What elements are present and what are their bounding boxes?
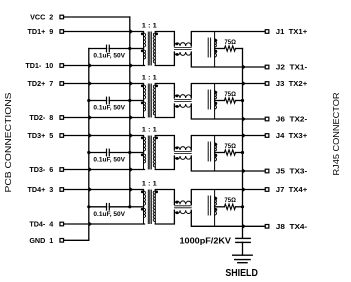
wire hop on termination bus xyxy=(242,224,246,229)
svg-text:TD4+ 3: TD4+ 3 xyxy=(28,185,54,194)
wire hop on GND bus xyxy=(89,63,93,68)
svg-text:RJ45 CONNECTOR: RJ45 CONNECTOR xyxy=(332,92,341,175)
wire TD4+&#160;&#160;3 to transformer T4 primary top xyxy=(65,189,144,191)
svg-text:75Ω: 75Ω xyxy=(224,40,236,46)
transformer T1 isolation 1:1 xyxy=(141,32,158,66)
wire hop on GND bus xyxy=(89,167,93,172)
wire T2 secondary top to choke L2 xyxy=(155,84,174,99)
wire center tap stub T3 xyxy=(130,152,144,154)
svg-text:0.1uF, 50V: 0.1uF, 50V xyxy=(93,53,125,60)
wire TD1+&#160;&#160;9 to transformer T1 primary top xyxy=(65,31,144,33)
svg-text:SHIELD: SHIELD xyxy=(225,268,258,279)
svg-text:J4 TX3+: J4 TX3+ xyxy=(276,131,307,140)
node GND bus xyxy=(88,49,90,241)
wire hop on GND bus xyxy=(89,115,93,120)
transformer T4 isolation 1:1 xyxy=(141,190,158,225)
capacitor C2 0.1uF 50V (decoupling) xyxy=(89,100,107,102)
wire hop on VCC bus xyxy=(130,29,134,34)
svg-text:J5 TX3-: J5 TX3- xyxy=(276,167,308,176)
svg-text:J3 TX2+: J3 TX2+ xyxy=(276,79,307,88)
svg-text:0.1uF, 50V: 0.1uF, 50V xyxy=(93,105,125,112)
capacitor C3 0.1uF 50V (decoupling) xyxy=(89,152,107,154)
pin J7&#160;&#160;TX4+ xyxy=(265,188,269,192)
autotransformer choke L3b xyxy=(208,136,217,172)
wire TD1-&#160;&#160;10 to transformer T1 primary bottom xyxy=(65,65,145,67)
svg-text:1000pF/2KV: 1000pF/2KV xyxy=(180,237,232,246)
junction VCC bus / center tap T4 xyxy=(128,205,131,208)
junction GND bus / capacitor C4 xyxy=(87,205,90,208)
wire GND pin to ground bus xyxy=(65,239,89,241)
junction termination bus / resistor R2 xyxy=(241,99,244,102)
wire TD2-&#160;&#160;8 to transformer T2 primary bottom xyxy=(65,117,145,119)
common-mode choke L2 xyxy=(174,95,191,108)
svg-text:75Ω: 75Ω xyxy=(224,198,236,204)
transformer T3 isolation 1:1 xyxy=(141,136,158,170)
pin J6&#160;&#160;TX2- xyxy=(265,117,269,121)
svg-text:TD3+ 5: TD3+ 5 xyxy=(28,131,54,140)
wire TD3+&#160;&#160;5 to transformer T3 primary top xyxy=(65,135,144,137)
node termination bus to shield capacitor xyxy=(242,49,244,239)
svg-text:TD1+ 9: TD1+ 9 xyxy=(28,27,54,36)
junction termination bus / resistor R3 xyxy=(241,151,244,154)
svg-text:TD2+ 7: TD2+ 7 xyxy=(28,79,54,88)
wire T4 secondary top to choke L4 xyxy=(155,190,174,205)
common-mode choke L4 xyxy=(174,201,191,214)
svg-text:TD2- 8: TD2- 8 xyxy=(29,113,53,122)
wire hop on VCC bus xyxy=(130,187,134,192)
wire hop on GND bus xyxy=(89,221,93,226)
resistor R3 75 Ohm (termination) xyxy=(215,150,243,155)
common-mode choke L3 xyxy=(174,147,191,160)
node VCC bus (center taps) xyxy=(129,17,131,207)
svg-text:75Ω: 75Ω xyxy=(224,144,236,150)
svg-text:VCC 2: VCC 2 xyxy=(30,13,53,22)
autotransformer choke L2b xyxy=(208,84,217,120)
wire choke L1 to J2&#160;&#160;TX1- (bottom rail) xyxy=(191,52,264,67)
capacitor C1 0.1uF 50V (decoupling) xyxy=(89,48,107,50)
wire T2 secondary bottom to choke L2 xyxy=(155,104,174,118)
wire hop on termination bus xyxy=(242,116,246,121)
pin J3&#160;&#160;TX2+ xyxy=(265,82,269,86)
svg-text:75Ω: 75Ω xyxy=(224,92,236,98)
wire TD3-&#160;&#160;6 to transformer T3 primary bottom xyxy=(65,169,145,171)
pin J4&#160;&#160;TX3+ xyxy=(265,134,269,138)
wire hop on termination bus xyxy=(242,64,246,69)
wire hop on VCC bus xyxy=(130,115,134,120)
autotransformer choke L4b xyxy=(208,190,217,227)
svg-text:J2 TX1-: J2 TX1- xyxy=(276,63,308,72)
junction VCC bus / center tap T2 xyxy=(128,99,131,102)
wire hop on termination bus xyxy=(242,81,246,86)
junction termination bus / resistor R4 xyxy=(241,205,244,208)
svg-text:0.1uF, 50V: 0.1uF, 50V xyxy=(93,157,125,164)
wire hop on termination bus xyxy=(242,187,246,192)
wire choke L1 to J1&#160;&#160;TX1+ (top rail) xyxy=(191,32,264,47)
wire hop on VCC bus xyxy=(130,81,134,86)
wire hop on termination bus xyxy=(242,168,246,173)
ground (shield) xyxy=(233,255,253,263)
svg-text:1 : 1: 1 : 1 xyxy=(142,126,157,133)
resistor R4 75 Ohm (termination) xyxy=(215,204,243,209)
wire T1 secondary top to choke L1 xyxy=(155,32,174,47)
wire center tap stub T1 xyxy=(130,48,144,50)
svg-text:TD3- 6: TD3- 6 xyxy=(29,165,53,174)
resistor R1 75 Ohm (termination) xyxy=(215,46,243,51)
svg-text:TD4- 4: TD4- 4 xyxy=(29,220,53,229)
wire hop on VCC bus xyxy=(130,63,134,68)
wire hop on VCC bus xyxy=(130,167,134,172)
svg-text:PCB CONNECTIONS: PCB CONNECTIONS xyxy=(3,92,13,192)
junction GND bus / capacitor C3 xyxy=(87,151,90,154)
transformer T2 isolation 1:1 xyxy=(141,84,158,118)
wire T1 secondary bottom to choke L1 xyxy=(155,52,174,66)
junction VCC bus / center tap T3 xyxy=(128,151,131,154)
wire center tap stub T2 xyxy=(130,100,144,102)
wire choke L3 to J5&#160;&#160;TX3- (bottom rail) xyxy=(191,156,264,171)
wire TD2+&#160;&#160;7 to transformer T2 primary top xyxy=(65,83,144,85)
wire hop on GND bus xyxy=(89,133,93,138)
wire VCC to center-tap bus xyxy=(65,16,130,18)
wire hop on GND bus xyxy=(89,187,93,192)
wire hop on VCC bus xyxy=(130,133,134,138)
wire choke L3 to J4&#160;&#160;TX3+ (top rail) xyxy=(191,136,264,151)
pin J1&#160;&#160;TX1+ xyxy=(265,30,269,34)
pin J8&#160;&#160;TX4- xyxy=(265,225,269,229)
svg-text:1 : 1: 1 : 1 xyxy=(142,180,157,187)
junction GND bus / capacitor C2 xyxy=(87,99,90,102)
pin J2&#160;&#160;TX1- xyxy=(265,65,269,69)
svg-text:0.1uF, 50V: 0.1uF, 50V xyxy=(93,211,125,218)
wire T4 secondary bottom to choke L4 xyxy=(155,210,174,224)
wire TD4-&#160;&#160;4 to transformer T4 primary bottom xyxy=(65,223,145,225)
pin J5&#160;&#160;TX3- xyxy=(265,169,269,173)
svg-text:TD1- 10: TD1- 10 xyxy=(25,61,53,70)
wire center tap stub T4 xyxy=(130,206,144,208)
capacitor C4 0.1uF 50V (decoupling) xyxy=(89,206,107,208)
wire T3 secondary top to choke L3 xyxy=(155,136,174,151)
common-mode choke L1 xyxy=(174,43,191,56)
capacitor C5 1000pF/2KV shield xyxy=(236,238,250,255)
junction VCC bus / center tap T1 xyxy=(128,47,131,50)
autotransformer choke L1b xyxy=(208,32,217,68)
svg-text:J7 TX4+: J7 TX4+ xyxy=(276,185,307,194)
wire hop on GND bus xyxy=(89,81,93,86)
svg-text:J1 TX1+: J1 TX1+ xyxy=(276,27,307,36)
wire hop on termination bus xyxy=(242,133,246,138)
svg-text:GND 1: GND 1 xyxy=(29,236,53,245)
svg-text:J8 TX4-: J8 TX4- xyxy=(276,222,308,231)
wire T3 secondary bottom to choke L3 xyxy=(155,156,174,170)
wire choke L4 to J8&#160;&#160;TX4- (bottom rail) xyxy=(191,210,264,226)
resistor R2 75 Ohm (termination) xyxy=(215,98,243,103)
svg-text:1 : 1: 1 : 1 xyxy=(142,74,157,81)
wire choke L2 to J3&#160;&#160;TX2+ (top rail) xyxy=(191,84,264,99)
wire choke L4 to J7&#160;&#160;TX4+ (top rail) xyxy=(191,190,264,205)
svg-text:J6 TX2-: J6 TX2- xyxy=(276,115,308,124)
svg-text:1 : 1: 1 : 1 xyxy=(142,22,157,29)
wire choke L2 to J6&#160;&#160;TX2- (bottom rail) xyxy=(191,104,264,119)
